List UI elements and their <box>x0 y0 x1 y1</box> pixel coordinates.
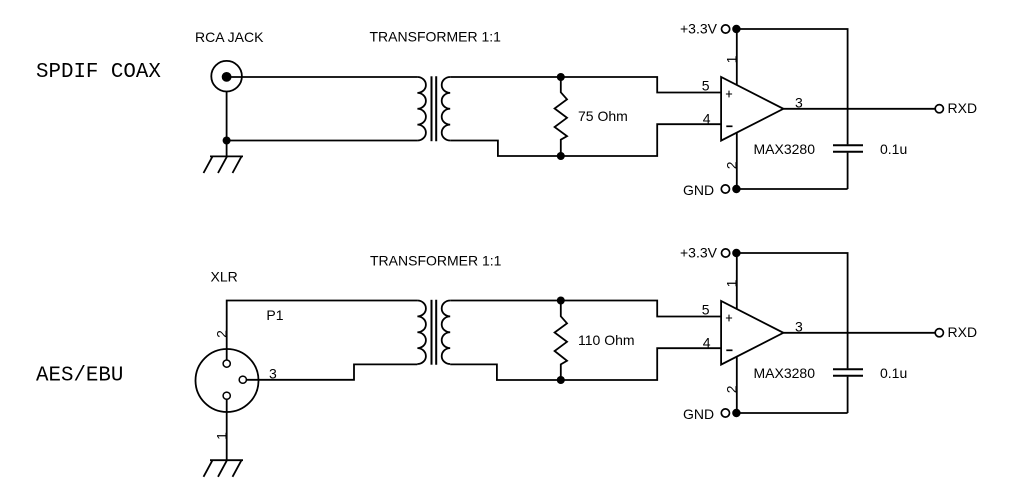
+3.3V terminal (bottom) <box>680 245 741 261</box>
svg-text:GND: GND <box>683 406 714 422</box>
svg-text:P1: P1 <box>266 307 283 323</box>
transformer T1 (1:1) <box>417 76 450 141</box>
wire: RCA center pin to transformer top <box>230 76 417 78</box>
wire: XLR pin 2 to transformer top <box>227 301 418 360</box>
op-amp U2 pin1 supply line <box>736 253 738 314</box>
svg-text:AES/EBU: AES/EBU <box>36 364 123 387</box>
pin label 4 <box>703 111 711 127</box>
svg-text:MAX3280: MAX3280 <box>754 365 816 381</box>
ground (top circuit) <box>204 156 244 173</box>
svg-text:4: 4 <box>703 111 711 127</box>
label TRANSFORMER 1:1 (top) <box>370 29 502 45</box>
resistor 110 Ohm <box>555 301 567 381</box>
svg-text:MAX3280: MAX3280 <box>754 141 816 157</box>
op-amp U2 pin2 gnd line <box>736 352 738 413</box>
svg-text:TRANSFORMER 1:1: TRANSFORMER 1:1 <box>370 253 502 269</box>
wire: +3.3V rail to cap branch (bottom) <box>736 253 847 368</box>
svg-text:110 Ohm: 110 Ohm <box>578 332 635 348</box>
svg-text:5: 5 <box>702 302 710 318</box>
transformer T2 (1:1) <box>417 300 450 365</box>
node: resistor top (bottom circuit) <box>557 297 565 305</box>
capacitor 0.1u (top) <box>833 145 863 152</box>
op-amp U1 pin1 supply line <box>736 29 738 90</box>
resistor 75 Ohm <box>555 77 567 156</box>
node: resistor bottom (bottom circuit) <box>557 376 565 384</box>
op-amp U1 pin2 gnd line <box>736 128 738 189</box>
wire: cap bottom to gnd rail <box>847 153 849 189</box>
wire: cap bottom to gnd rail (bottom) <box>847 377 849 413</box>
node: resistor top <box>557 73 565 81</box>
wire: transformer bottom to op-amp pin 4 (bottom) <box>450 348 721 380</box>
wire: +3.3V rail to cap branch <box>736 29 847 144</box>
RCA jack connector <box>211 61 242 92</box>
pin label 5 <box>702 78 710 94</box>
svg-text:2: 2 <box>723 385 739 393</box>
pin label 5 (bottom) <box>702 302 710 318</box>
svg-text:+3.3V: +3.3V <box>680 245 718 261</box>
svg-text:1: 1 <box>723 55 739 63</box>
label MAX3280 (bottom) <box>754 365 816 381</box>
title AES/EBU <box>36 364 123 387</box>
GND terminal (top) <box>683 182 848 198</box>
op-amp U2 MAX3280 <box>721 301 783 365</box>
wire: bottom rail to transformer <box>227 140 418 142</box>
label 75 Ohm <box>578 108 628 124</box>
label 0.1u (bottom) <box>880 365 907 381</box>
wire: op-amp output to RXD <box>783 108 935 110</box>
svg-text:RCA JACK: RCA JACK <box>195 29 264 45</box>
title SPDIF COAX <box>36 61 161 84</box>
wire: XLR pin 3 to transformer bottom <box>247 364 418 379</box>
RXD terminal (bottom) <box>935 324 977 340</box>
pin label 3 (XLR) <box>269 366 277 382</box>
+3.3V terminal (top) <box>680 21 741 37</box>
svg-text:4: 4 <box>703 335 711 351</box>
label 110 Ohm <box>578 332 635 348</box>
pin label 4 (bottom) <box>703 335 711 351</box>
wire: RCA shield down to ground <box>226 92 228 157</box>
label MAX3280 (top) <box>754 141 816 157</box>
op-amp U1 MAX3280 <box>721 77 783 141</box>
pin label 3 (bottom) <box>795 318 803 334</box>
label 0.1u (top) <box>880 141 907 157</box>
GND terminal (bottom) <box>683 406 848 422</box>
wire: transformer bottom to op-amp pin 4 <box>450 124 721 156</box>
svg-text:XLR: XLR <box>211 269 238 285</box>
XLR connector P1 <box>196 349 259 412</box>
svg-text:GND: GND <box>683 182 714 198</box>
ground (bottom circuit) <box>204 460 244 477</box>
label P1 <box>266 307 283 323</box>
svg-text:1: 1 <box>723 279 739 287</box>
svg-text:0.1u: 0.1u <box>880 365 907 381</box>
svg-text:0.1u: 0.1u <box>880 141 907 157</box>
node: resistor bottom <box>557 152 565 160</box>
pin label 1 (rotated) <box>723 55 739 63</box>
pin label 1 (rotated, XLR) <box>213 432 229 440</box>
svg-text:+3.3V: +3.3V <box>680 21 718 37</box>
pin label 2 (rotated) <box>723 161 739 169</box>
wire: op-amp output to RXD (bottom) <box>783 332 935 334</box>
svg-text:75 Ohm: 75 Ohm <box>578 108 628 124</box>
svg-text:2: 2 <box>723 161 739 169</box>
pin label 3 <box>795 94 803 110</box>
node: shield/bottom-rail junction <box>223 137 231 145</box>
svg-text:TRANSFORMER 1:1: TRANSFORMER 1:1 <box>370 29 502 45</box>
wire: transformer top to op-amp pin 5 <box>450 77 721 93</box>
pin label 2 (rotated, bottom) <box>723 385 739 393</box>
svg-text:RXD: RXD <box>948 324 978 340</box>
capacitor 0.1u (bottom) <box>833 369 863 376</box>
RXD terminal (top) <box>935 100 977 116</box>
wire: XLR pin 1 down to ground <box>226 400 228 461</box>
svg-text:RXD: RXD <box>948 100 978 116</box>
label TRANSFORMER 1:1 (bottom) <box>370 253 502 269</box>
label XLR <box>211 269 238 285</box>
label RCA JACK <box>195 29 264 45</box>
pin label 1 (rotated, bottom) <box>723 279 739 287</box>
pin label 2 (rotated, XLR) <box>213 330 229 338</box>
svg-text:SPDIF COAX: SPDIF COAX <box>36 61 161 84</box>
svg-text:5: 5 <box>702 78 710 94</box>
wire: transformer top to op-amp pin 5 (bottom) <box>450 301 721 317</box>
